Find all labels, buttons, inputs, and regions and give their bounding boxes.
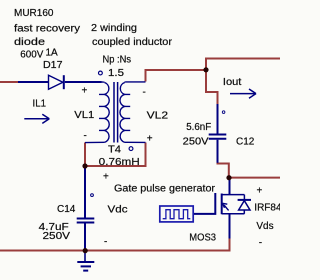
transformer phase dot bottom [129,147,133,151]
pulse waveform [163,210,191,219]
transformer T4 core [114,82,118,143]
svg-text:MOS3: MOS3 [189,233,216,244]
svg-text:2 winding: 2 winding [91,23,137,34]
IL1 current arrow [24,114,49,123]
node D junction dot (ground rail) [83,248,88,253]
svg-text:1.5: 1.5 [108,68,124,79]
svg-text:Np :Ns: Np :Ns [103,54,132,65]
node C junction dot [82,163,87,168]
wire step right of transformer to node A [146,70,207,82]
svg-text:Gate pulse generator: Gate pulse generator [114,184,216,195]
capacitor C14 [77,167,95,251]
transformer T4 left winding [85,82,109,143]
svg-text:-: - [143,87,146,98]
svg-text:-: - [259,237,262,248]
svg-text:Iout: Iout [223,77,242,88]
svg-text:-: - [104,237,107,248]
svg-text:1A: 1A [46,47,59,58]
svg-text:Vdc: Vdc [108,204,128,215]
node A junction dot [203,67,208,72]
gate pulse generator MOS3 box [160,206,193,222]
wire input left red [0,81,18,83]
svg-text:IRF840: IRF840 [254,203,280,214]
wire C12 bottom to node B [218,163,229,178]
svg-text:Vds: Vds [256,221,273,232]
svg-text:600V: 600V [20,50,43,61]
svg-text:5.6nF: 5.6nF [186,122,211,133]
MOSFET IRF840 [193,179,244,239]
svg-text:-: - [84,131,87,142]
C12 pin marker [222,111,225,114]
svg-text:VL1: VL1 [74,110,94,121]
diode D17 [18,75,102,89]
svg-text:coupled inductor: coupled inductor [92,37,173,48]
MOSFET body diode [238,195,251,214]
svg-text:+: + [257,185,263,196]
svg-text:T4: T4 [108,144,121,155]
svg-text:C12: C12 [236,136,255,147]
wire MOSFET source down to bottom rail [229,238,231,251]
svg-text:C14: C14 [57,204,76,215]
wire node B right to edge [229,177,280,179]
svg-text:250V: 250V [183,136,209,147]
svg-text:0.76mH: 0.76mH [99,157,140,168]
capacitor C12 [209,104,227,163]
wire node C right to right winding bottom [85,143,146,167]
wire node A up and right to edge [206,59,280,71]
svg-text:D17: D17 [43,60,63,71]
wire node A down step to C12 [206,70,218,104]
node B junction dot [226,175,231,180]
Iout current arrow [230,89,256,98]
svg-text:+: + [82,86,88,97]
svg-text:+: + [147,134,153,145]
C14 pin marker [91,194,94,197]
svg-text:+: + [103,172,109,183]
svg-text:VL2: VL2 [147,110,169,121]
svg-text:250V: 250V [43,231,71,242]
svg-text:MUR160: MUR160 [14,8,54,19]
svg-text:diode: diode [14,37,46,48]
wire left winding bottom down to node C [84,143,86,167]
svg-text:IL1: IL1 [33,98,47,109]
transformer T4 right winding [120,82,146,142]
wire bottom rail [0,250,231,252]
ground [77,251,94,271]
transformer phase dot top [99,71,103,75]
svg-text:fast recovery: fast recovery [14,23,80,34]
